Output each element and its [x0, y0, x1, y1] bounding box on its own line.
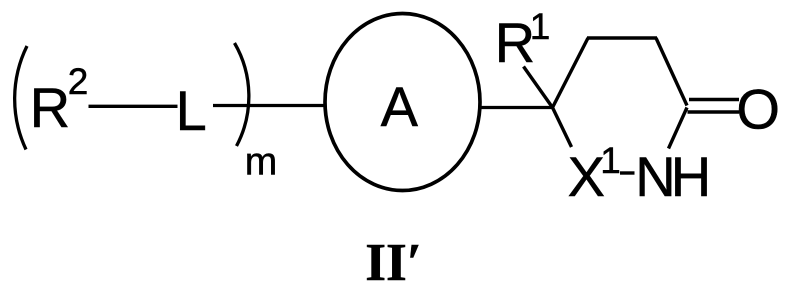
bond C5-X1 — [553, 108, 572, 148]
svg-text:R: R — [30, 76, 70, 139]
bond R2-L — [89, 105, 178, 108]
bond C7-C8 — [656, 38, 687, 106]
svg-text:N: N — [635, 145, 675, 208]
dash X1-NH — [620, 171, 635, 174]
carbonyl double bond C8=O lower — [688, 110, 740, 113]
bond C5-C6 — [553, 38, 589, 108]
svg-text:II′: II′ — [365, 232, 422, 290]
right parenthesis — [235, 43, 249, 146]
svg-text:m: m — [245, 141, 277, 184]
bond L-ringA — [213, 104, 325, 107]
bond C5-R1 — [524, 67, 553, 108]
svg-text:2: 2 — [68, 61, 89, 102]
left parenthesis — [15, 46, 27, 150]
svg-text:1: 1 — [530, 6, 551, 47]
bond C6-C7 — [587, 36, 657, 39]
bond ringA-C5 — [480, 106, 553, 109]
svg-text:A: A — [381, 75, 419, 138]
svg-text:L: L — [176, 79, 207, 142]
svg-text:H: H — [671, 145, 711, 208]
svg-text:O: O — [736, 78, 780, 141]
bond C8-N — [669, 108, 688, 149]
carbonyl double bond C8=O upper — [689, 98, 739, 101]
svg-text:1: 1 — [600, 140, 621, 181]
ring A circle — [325, 14, 480, 191]
